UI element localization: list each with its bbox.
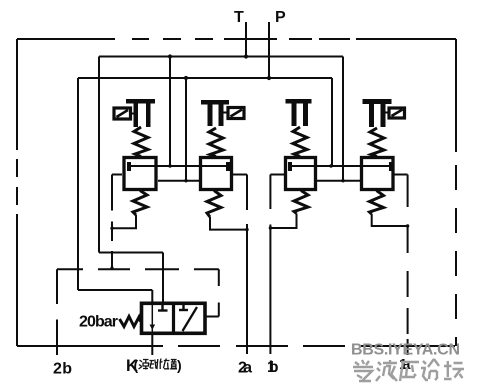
wire P left rail down [77, 78, 79, 290]
wire P header line2 [78, 77, 332, 79]
svg-text:T: T [234, 9, 244, 26]
valve V4 body [362, 158, 394, 190]
label T [234, 9, 244, 26]
pi actuator V1 [126, 99, 155, 127]
directional valve K body [142, 303, 206, 333]
wire H2 between V1 V2 [158, 180, 199, 182]
label zhi char [170, 360, 177, 369]
enclosure right dashed boundary [455, 39, 457, 346]
label 20bar [79, 314, 118, 331]
wire 2b dashed run [57, 268, 219, 270]
spring above V1 [134, 127, 148, 157]
wire H3 between V3 V4 [290, 165, 391, 167]
wire P right drop between V3 V4 [331, 78, 333, 166]
wire P feed to pilot valve [78, 290, 152, 303]
drain V3 to 1b line [270, 214, 296, 229]
port T wire [245, 22, 247, 57]
spring above V2 [209, 128, 223, 157]
solenoid V2 [224, 108, 245, 119]
watermark ye char [376, 360, 397, 381]
label 2a [238, 360, 252, 377]
wire V3 left port to 1b [270, 175, 284, 355]
K left position blocked port [158, 305, 168, 311]
wire T feed to pilot valve [99, 253, 163, 304]
spring 20bar [120, 317, 141, 327]
valve V3 body [286, 158, 316, 190]
label 1b [267, 359, 279, 376]
svg-text:BBS.IYEYA.CN: BBS.IYEYA.CN [351, 342, 460, 359]
wire V2 right port to 2a [232, 175, 247, 355]
K left position through line [150, 305, 156, 332]
valve V1 body [124, 158, 156, 190]
pi actuator V4 [363, 99, 392, 127]
wire H4 between V3 V4 [317, 180, 360, 182]
svg-text:2b: 2b [53, 361, 72, 378]
K right position diagonal path [183, 307, 198, 331]
drain V1 to 2b line [112, 215, 136, 228]
wire T header line1 [99, 56, 343, 58]
label K [126, 357, 138, 375]
valve V2 body [201, 158, 232, 190]
spring above V4 [370, 128, 384, 157]
label 2b [53, 361, 72, 378]
label dong char [150, 359, 158, 369]
label fu char [139, 360, 149, 370]
port P wire [268, 22, 270, 78]
label 1a [399, 356, 411, 373]
wire V4 right port to 1a dashed [394, 175, 408, 356]
spring below V1 [133, 191, 147, 216]
svg-text:20bar: 20bar [79, 314, 118, 331]
watermark tan char [444, 361, 464, 379]
watermark ya char [400, 362, 419, 381]
solenoid V1 [114, 108, 134, 119]
pi actuator V3 [286, 99, 312, 126]
enclosure top dashed boundary [17, 38, 456, 40]
wire P drop between V1 V2 [185, 78, 187, 181]
spring below V3 [294, 191, 308, 214]
wire T right drop between V3 V4 [342, 57, 344, 181]
pi actuator V2 [201, 100, 229, 126]
K right position blocked port [179, 305, 188, 311]
svg-text:2a: 2a [238, 360, 252, 377]
svg-text:P: P [275, 9, 286, 26]
watermark BBS.IYEYA.CN [351, 342, 460, 359]
wire 2b down to port [56, 269, 58, 355]
spring below V4 [370, 191, 384, 215]
wire K valve right port dashed up [206, 269, 219, 316]
enclosure left dashed boundary [16, 39, 18, 346]
watermark ai char [353, 360, 373, 381]
svg-text:): ) [177, 357, 182, 373]
solenoid V4 [386, 108, 405, 118]
wire K output port [151, 333, 153, 355]
spring below V2 [207, 191, 221, 218]
wire T left rail down [98, 57, 100, 253]
label K parens [134, 357, 182, 373]
wire H1 between V1 V2 [129, 165, 228, 167]
svg-text:(: ( [134, 357, 139, 373]
svg-text:1b: 1b [267, 359, 279, 376]
spring above V3 [293, 127, 307, 157]
wire T drop between V1 V2 [169, 57, 171, 167]
wire V1 left port to 2b [112, 175, 122, 270]
watermark lun char [421, 359, 439, 380]
label wei char [160, 359, 170, 370]
enclosure bottom dashed boundary [17, 345, 455, 347]
drain V4 to 1a line [372, 214, 408, 226]
drain V2 to 2a line [210, 217, 247, 230]
label P [275, 9, 286, 26]
